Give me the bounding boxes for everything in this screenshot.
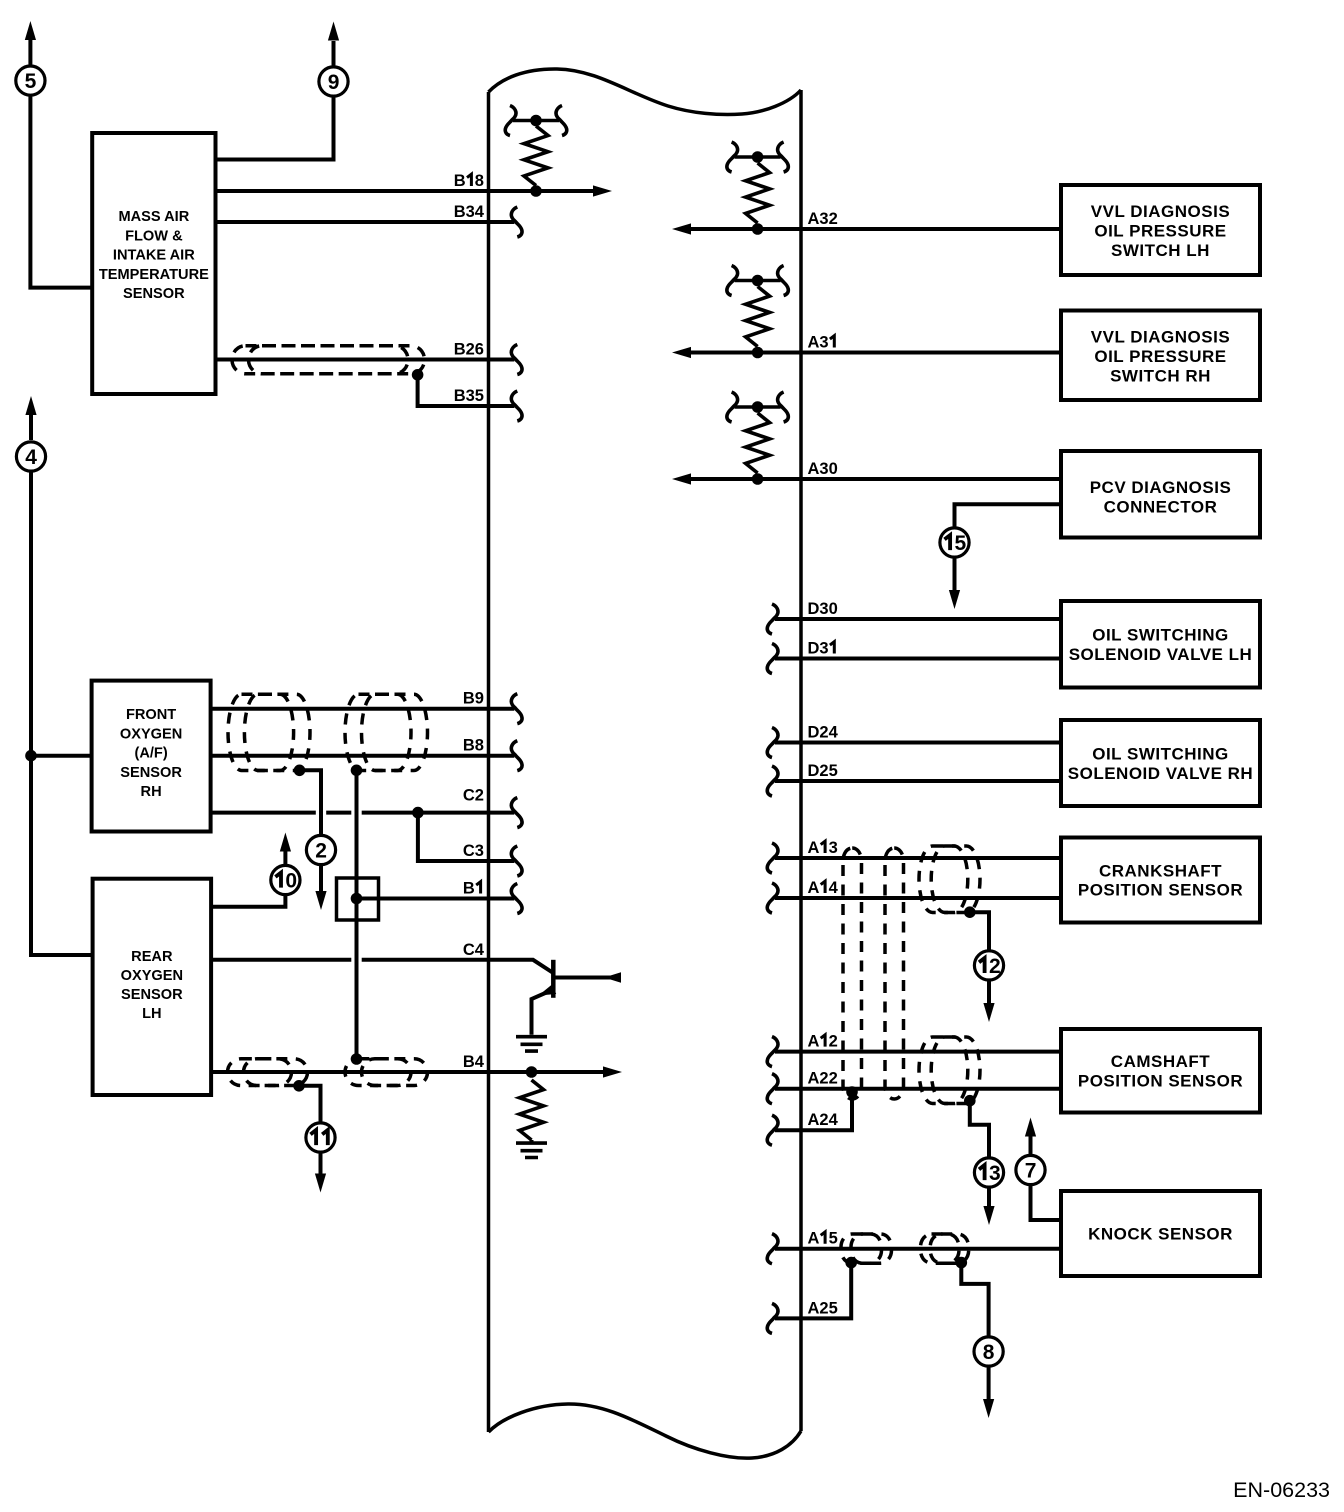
- svg-text:B: B: [454, 172, 466, 190]
- wire B18: [216, 189, 595, 193]
- svg-text:3: 3: [466, 387, 475, 405]
- svg-text:0: 0: [285, 870, 297, 893]
- svg-text:5: 5: [955, 532, 967, 555]
- svg-text:4: 4: [829, 1111, 839, 1129]
- wire A15: [775, 1247, 1061, 1251]
- connector curl left of A30 supply: [727, 392, 738, 422]
- svg-text:3: 3: [819, 640, 828, 658]
- wire shield drain to connector 2: [300, 770, 322, 835]
- svg-text:7: 7: [1025, 1160, 1037, 1183]
- ECM right edge wire: [799, 90, 803, 1431]
- connector circle 9: [319, 67, 348, 96]
- arrow below connector 13: [987, 1187, 991, 1206]
- svg-text:3: 3: [819, 334, 828, 352]
- pull-up resistor on A31: [746, 287, 770, 347]
- svg-text:VVL DIAGNOSISOIL PRESSURESWITC: VVL DIAGNOSISOIL PRESSURESWITCH LH: [1091, 202, 1230, 260]
- svg-text:D: D: [808, 724, 820, 742]
- wire circle4 down to rear oxygen sensor: [31, 471, 93, 955]
- svg-text:5: 5: [475, 387, 484, 405]
- svg-text:0: 0: [829, 460, 838, 478]
- connector curl left of B18 supply: [505, 106, 516, 136]
- svg-text:2: 2: [819, 1070, 828, 1088]
- knock sensor box: [1061, 1191, 1260, 1276]
- junction dot A31: [752, 347, 764, 359]
- svg-text:A: A: [808, 879, 820, 897]
- oil switching solenoid valve LH box: [1061, 601, 1260, 688]
- wire resistor to ground: [530, 1140, 534, 1143]
- connector curl right of A30 supply: [778, 392, 789, 422]
- svg-text:VVL DIAGNOSISOIL PRESSURESWITC: VVL DIAGNOSISOIL PRESSURESWITCH RH: [1091, 328, 1230, 386]
- connector curl A25: [767, 1303, 778, 1333]
- connector curl A15: [767, 1234, 778, 1264]
- ECM left edge wire: [487, 92, 491, 1432]
- arrow below connector 2: [319, 864, 323, 892]
- ground below transistor: [516, 1037, 547, 1051]
- svg-text:2: 2: [819, 762, 828, 780]
- junction dot A15 shield2 drain: [956, 1257, 968, 1269]
- junction dot on B26 shield drain: [412, 369, 424, 381]
- wire D30: [775, 617, 1061, 621]
- svg-text:C: C: [463, 787, 475, 805]
- svg-text:0: 0: [829, 600, 838, 618]
- connector curl D25: [767, 766, 778, 796]
- junction dot A12/A22 shield drain: [964, 1095, 976, 1107]
- shield on A13/A14: [919, 846, 968, 913]
- pull-up resistor on A32: [746, 163, 770, 223]
- wire B9: [211, 707, 515, 711]
- svg-text:2: 2: [475, 787, 484, 805]
- junction dot shield2 drain B9/B8: [351, 765, 363, 777]
- arrow below connector 8: [987, 1366, 991, 1399]
- svg-text:3: 3: [819, 600, 828, 618]
- transistor collector wire: [553, 976, 620, 980]
- twisted pair shield 2 on B9/B8: [345, 694, 411, 770]
- connector curl D30: [767, 604, 778, 634]
- connector curl D24: [767, 728, 778, 758]
- svg-text:2: 2: [819, 1299, 828, 1317]
- svg-text:A: A: [808, 460, 820, 478]
- svg-text:3: 3: [466, 203, 475, 221]
- svg-text:8: 8: [475, 737, 484, 755]
- svg-text:3: 3: [475, 842, 484, 860]
- supply rail line above A30 resistor: [735, 405, 781, 409]
- wire A12: [775, 1050, 1061, 1054]
- svg-text:A: A: [808, 1033, 820, 1051]
- connector circle 5: [16, 66, 45, 95]
- wire B1: [357, 897, 515, 901]
- junction dot A30: [752, 473, 764, 485]
- shield drain bus wire down to B4 shield: [355, 770, 359, 1059]
- wire B34: [216, 220, 515, 224]
- wire A25: [775, 1264, 851, 1318]
- pull-up resistor on A30: [746, 413, 770, 473]
- long twisted pair loop 1 A13-A22: [843, 848, 862, 1099]
- junction dot B4 shield2 top: [351, 1053, 363, 1065]
- mass air flow & intake air temperature sensor box: [92, 133, 215, 394]
- ECM bottom torn edge: [489, 1404, 802, 1458]
- connector circle 7: [1016, 1155, 1045, 1184]
- connector curl left of A32 supply: [727, 142, 738, 172]
- svg-text:B: B: [463, 880, 475, 898]
- wire shield drain to connector 12: [970, 912, 989, 951]
- wire knock sensor to connector 7: [1031, 1185, 1062, 1221]
- junction dot on A30 supply rail: [752, 401, 764, 413]
- wire MAF to connector 9: [216, 96, 334, 159]
- svg-text:5: 5: [25, 70, 37, 93]
- svg-text:2: 2: [466, 341, 475, 359]
- pull-down resistor on B4: [520, 1080, 544, 1140]
- svg-text:2: 2: [829, 210, 838, 228]
- connector curl B1: [511, 884, 522, 914]
- svg-text:A: A: [808, 334, 820, 352]
- wire branch to front oxygen sensor: [31, 754, 92, 758]
- arrow below connector 11: [319, 1152, 323, 1174]
- camshaft position sensor box: [1061, 1029, 1260, 1113]
- wire B26: [216, 358, 515, 362]
- connector curl B8: [511, 741, 522, 771]
- junction dot A13/A14 shield drain: [964, 906, 976, 918]
- svg-text:5: 5: [829, 762, 838, 780]
- supply rail line above B18 resistor: [513, 119, 559, 123]
- junction dot B4: [526, 1066, 538, 1078]
- connector circle 10: [271, 865, 300, 894]
- svg-text:C: C: [463, 941, 475, 959]
- wire A30: [690, 477, 1061, 481]
- junction dot B4 shield1 drain: [293, 1080, 305, 1092]
- connector curl A13: [767, 843, 778, 873]
- svg-text:A: A: [808, 1070, 820, 1088]
- svg-text:A: A: [808, 210, 820, 228]
- VVL diagnosis oil pressure switch RH box: [1061, 311, 1260, 401]
- arrow above connector 5: [28, 40, 32, 66]
- svg-text:3: 3: [819, 210, 828, 228]
- svg-text:4: 4: [475, 941, 485, 959]
- wire circle5 to MAF sensor: [30, 95, 92, 287]
- svg-text:2: 2: [819, 1111, 828, 1129]
- connector curl B34: [511, 207, 522, 237]
- arrow below connector 12: [987, 980, 991, 1003]
- junction dot on A31 supply rail: [752, 275, 764, 287]
- shield around B26 wire: [232, 346, 408, 374]
- shield junction square B1: [337, 878, 379, 920]
- svg-text:B: B: [463, 690, 475, 708]
- connector curl left of A31 supply: [727, 266, 738, 296]
- connector circle 11: [306, 1123, 335, 1152]
- connector curl B9: [511, 694, 522, 724]
- svg-text:OIL SWITCHINGSOLENOID VALVE LH: OIL SWITCHINGSOLENOID VALVE LH: [1069, 626, 1253, 664]
- junction dot on circle4 wire: [25, 750, 37, 762]
- wire A31: [690, 351, 1061, 355]
- svg-text:2: 2: [829, 1033, 838, 1051]
- wire PCV connector to 15: [955, 504, 1062, 528]
- connector circle 13: [974, 1158, 1003, 1187]
- svg-text:4: 4: [829, 724, 839, 742]
- oil switching solenoid valve RH box: [1061, 720, 1260, 806]
- connector curl D31: [767, 644, 778, 674]
- wire shield drain to connector 8: [961, 1263, 988, 1337]
- svg-text:C: C: [463, 842, 475, 860]
- svg-text:4: 4: [829, 879, 839, 897]
- supply rail line above A32 resistor: [735, 155, 781, 159]
- wire A32: [690, 227, 1061, 231]
- ground below B4 resistor: [516, 1143, 547, 1157]
- shield 2 on B4 wire: [345, 1059, 411, 1086]
- connector circle 2: [306, 835, 335, 864]
- connector circle 4: [16, 442, 45, 471]
- arrow above connector 4: [29, 415, 33, 440]
- wire D25: [775, 779, 1061, 783]
- svg-text:OIL SWITCHINGSOLENOID VALVE RH: OIL SWITCHINGSOLENOID VALVE RH: [1068, 745, 1253, 783]
- junction dot on A32 supply rail: [752, 151, 764, 163]
- wire C4: [211, 960, 553, 973]
- svg-text:B: B: [454, 203, 466, 221]
- svg-text:KNOCK SENSOR: KNOCK SENSOR: [1088, 1225, 1233, 1244]
- svg-text:PCV DIAGNOSISCONNECTOR: PCV DIAGNOSISCONNECTOR: [1090, 478, 1232, 516]
- wire C2: [211, 811, 515, 815]
- svg-text:4: 4: [25, 446, 37, 469]
- svg-text:5: 5: [829, 1299, 838, 1317]
- svg-text:4: 4: [475, 203, 485, 221]
- connector curl C2: [511, 798, 522, 828]
- connector curl B26: [511, 345, 522, 375]
- shield 1 on A15 wire: [841, 1234, 882, 1263]
- connector circle 12: [974, 951, 1003, 980]
- svg-text:A: A: [808, 1111, 820, 1129]
- svg-text:2: 2: [989, 955, 1001, 978]
- wire D31: [775, 657, 1061, 661]
- svg-text:B: B: [463, 737, 475, 755]
- arrow above connector 9: [332, 41, 336, 67]
- connector curl A22: [767, 1074, 778, 1104]
- connector curl C3: [511, 846, 522, 876]
- connector circle 8: [974, 1337, 1003, 1366]
- wire A13: [775, 856, 1061, 860]
- svg-text:8: 8: [983, 1341, 995, 1364]
- shield on A12/A22: [919, 1037, 968, 1104]
- svg-text:D: D: [808, 640, 820, 658]
- wire shield drain to connector 11: [299, 1086, 321, 1123]
- wire D24: [775, 741, 1061, 745]
- svg-text:3: 3: [819, 460, 828, 478]
- svg-text:B: B: [463, 1053, 475, 1071]
- svg-text:2: 2: [819, 724, 828, 742]
- svg-text:D: D: [808, 762, 820, 780]
- junction dot A32: [752, 223, 764, 235]
- wire B8: [211, 754, 515, 758]
- wire shield drain to connector 13: [970, 1101, 989, 1158]
- arrow below connector 15: [953, 557, 957, 590]
- crankshaft position sensor box: [1061, 838, 1260, 923]
- junction dot A15 shield1 drain: [845, 1257, 857, 1269]
- connector curl right of A31 supply: [778, 266, 789, 296]
- svg-text:A: A: [808, 1299, 820, 1317]
- svg-text:8: 8: [475, 172, 484, 190]
- junction dot B18: [530, 185, 542, 197]
- svg-text:B: B: [454, 387, 466, 405]
- connector circle 15: [940, 528, 969, 557]
- svg-text:4: 4: [475, 1053, 485, 1071]
- pull-up resistor on B18: [524, 126, 548, 186]
- shield 2 on A15 wire: [921, 1234, 960, 1263]
- connector curl A12: [767, 1037, 778, 1067]
- front oxygen (A/F) sensor RH box: [92, 681, 211, 832]
- connector curl A24: [767, 1115, 778, 1145]
- connector curl right of A32 supply: [778, 142, 789, 172]
- svg-text:3: 3: [989, 1162, 1001, 1185]
- wire A24: [775, 1090, 852, 1130]
- svg-text:2: 2: [829, 1070, 838, 1088]
- wire B35 shield drain: [418, 375, 515, 406]
- VVL diagnosis oil pressure switch LH box: [1061, 185, 1260, 275]
- svg-text:2: 2: [315, 840, 327, 863]
- svg-text:A: A: [808, 839, 820, 857]
- svg-text:9: 9: [328, 71, 340, 94]
- svg-text:EN-06233: EN-06233: [1233, 1478, 1330, 1502]
- junction dot B1: [351, 893, 363, 905]
- arrow above connector 10: [283, 851, 287, 865]
- long twisted pair loop 2 A13-A22: [885, 848, 904, 1099]
- svg-text:D: D: [808, 600, 820, 618]
- junction dot shield1 drain B9/B8: [294, 765, 306, 777]
- PCV diagnosis connector box: [1061, 451, 1260, 538]
- wire A22: [775, 1087, 1061, 1091]
- svg-text:B: B: [454, 341, 466, 359]
- wire A14: [775, 896, 1061, 900]
- connector curl A14: [767, 883, 778, 913]
- svg-text:6: 6: [475, 341, 484, 359]
- transistor emitter wire: [532, 990, 554, 1035]
- svg-text:5: 5: [829, 1230, 838, 1248]
- wire C3: [418, 813, 514, 861]
- junction dot on B18 supply rail: [530, 115, 542, 127]
- shield 1 on B4 wire: [228, 1059, 292, 1086]
- twisted pair shield 1 on B9/B8: [228, 694, 294, 770]
- wire rear oxygen sensor to connector 10: [211, 895, 286, 907]
- wire B4: [211, 1070, 604, 1074]
- svg-text:9: 9: [475, 690, 484, 708]
- svg-text:A: A: [808, 1230, 820, 1248]
- ECM top torn edge: [489, 69, 802, 114]
- svg-text:CRANKSHAFTPOSITION SENSOR: CRANKSHAFTPOSITION SENSOR: [1078, 861, 1243, 899]
- transistor base bar: [551, 960, 556, 998]
- connector curl B35: [511, 391, 522, 421]
- arrow above connector 7: [1029, 1136, 1033, 1155]
- junction dot on C2: [412, 807, 424, 819]
- svg-text:3: 3: [829, 839, 838, 857]
- supply rail line above A31 resistor: [735, 279, 781, 283]
- connector curl right of B18 supply: [556, 106, 567, 136]
- rear oxygen sensor LH box: [93, 879, 212, 1095]
- junction dot A22/A24: [846, 1086, 858, 1098]
